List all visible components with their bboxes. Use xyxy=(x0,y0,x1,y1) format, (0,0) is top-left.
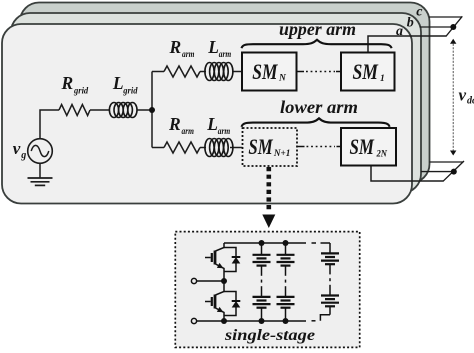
svg-text:N: N xyxy=(278,74,287,84)
svg-text:v: v xyxy=(459,86,467,105)
svg-text:grid: grid xyxy=(122,87,137,97)
svg-text:c: c xyxy=(416,4,423,19)
svg-text:v: v xyxy=(13,139,21,158)
svg-text:grid: grid xyxy=(73,87,88,97)
svg-text:arm: arm xyxy=(182,50,195,60)
svg-text:R: R xyxy=(168,114,181,134)
svg-text:SM: SM xyxy=(353,59,379,84)
svg-text:single-stage: single-stage xyxy=(224,327,315,344)
svg-text:2N: 2N xyxy=(376,149,388,159)
svg-text:arm: arm xyxy=(182,127,195,137)
svg-text:arm: arm xyxy=(218,127,231,137)
svg-text:SM: SM xyxy=(350,134,375,159)
svg-text:upper arm: upper arm xyxy=(279,19,356,39)
svg-text:N+1: N+1 xyxy=(273,149,290,159)
svg-text:R: R xyxy=(169,37,182,57)
svg-text:g: g xyxy=(20,150,26,161)
svg-text:a: a xyxy=(396,24,403,39)
svg-text:SM: SM xyxy=(252,59,278,84)
svg-text:R: R xyxy=(61,73,74,93)
svg-text:L: L xyxy=(206,114,218,134)
svg-text:arm: arm xyxy=(219,50,232,60)
svg-text:1: 1 xyxy=(380,74,385,84)
svg-text:dc: dc xyxy=(467,96,474,107)
svg-text:b: b xyxy=(407,15,414,30)
svg-text:L: L xyxy=(207,37,219,57)
svg-text:lower arm: lower arm xyxy=(280,97,358,117)
svg-text:L: L xyxy=(112,73,124,93)
svg-text:SM: SM xyxy=(248,134,273,159)
